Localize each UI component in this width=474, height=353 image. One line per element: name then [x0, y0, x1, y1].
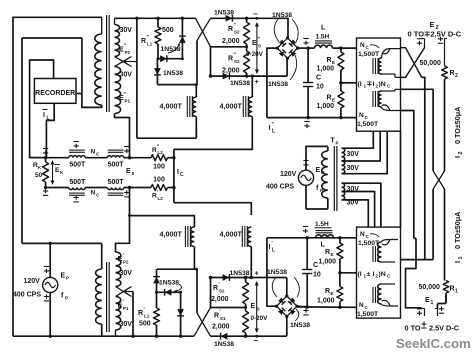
- wire X3 up to plus wire2: [210, 278, 212, 308]
- svg-text:E: E: [332, 60, 335, 65]
- svg-text:S2: S2: [234, 30, 240, 35]
- svg-text:S: S: [257, 307, 260, 312]
- wire X1 down to plus wire: [210, 47, 212, 76]
- node cap2 top: [306, 236, 309, 239]
- svg-text:R: R: [213, 285, 218, 292]
- label 500T (row2 c2): [108, 179, 125, 186]
- svg-text:1,000: 1,000: [317, 103, 335, 110]
- svg-text:500T: 500T: [69, 162, 86, 169]
- label I2 vertical: [453, 107, 464, 158]
- node RE2 mid: [338, 271, 341, 274]
- label RK 50: [33, 162, 43, 179]
- svg-text:E: E: [430, 20, 435, 29]
- node RS2 top: [245, 17, 248, 20]
- label 4000T no2: [220, 102, 243, 111]
- node Ic bottom: [172, 186, 175, 189]
- svg-text:P2: P2: [125, 50, 131, 55]
- svg-text:I: I: [269, 125, 271, 132]
- wire TP tap2 to box1: [342, 131, 381, 161]
- wire TP tap6 to box2: [342, 200, 369, 227]
- resistor 500 RL1: [155, 18, 161, 58]
- label EP mid: [316, 167, 325, 175]
- label 30V tap2: [347, 165, 360, 172]
- node x197 H269: [195, 268, 198, 271]
- label 10 bottom: [313, 272, 321, 279]
- svg-text:S1: S1: [220, 316, 226, 321]
- node H292 right: [179, 291, 182, 294]
- wire primary box TP: [306, 146, 328, 209]
- wire row2 (Es bottom): [46, 187, 151, 189]
- svg-text:P2: P2: [123, 260, 129, 265]
- terminal E1 b: [435, 307, 444, 316]
- wire X1R out right: [422, 77, 425, 259]
- svg-text:R: R: [325, 288, 330, 295]
- svg-text:N: N: [360, 231, 365, 238]
- label 2000 lower: [222, 68, 240, 75]
- svg-text:L2: L2: [158, 196, 164, 201]
- box2 winding upper coil: [378, 240, 398, 263]
- node row1 left junction: [44, 156, 47, 159]
- wire coil4 bottom: [250, 247, 252, 278]
- svg-text:C: C: [313, 262, 318, 269]
- svg-text:': ': [123, 300, 124, 306]
- wire bottom rail right: [211, 335, 287, 337]
- label 1N538 bridge2 top: [267, 269, 299, 297]
- box2 winding lower core: [373, 287, 378, 303]
- label 1N538 (b): [163, 70, 183, 77]
- svg-text:S2: S2: [234, 59, 240, 64]
- node cap bottom on rail: [306, 116, 309, 119]
- svg-text:1,500T: 1,500T: [358, 51, 380, 58]
- polarity mark row1 left: [43, 149, 48, 156]
- transformer T1 center crossing: [115, 57, 137, 67]
- svg-text:1N538: 1N538: [230, 270, 250, 277]
- polarity mark under rail118: [304, 122, 309, 129]
- svg-text:0-20V: 0-20V: [246, 51, 264, 58]
- wire rail 238: [267, 237, 357, 239]
- label 1500T (box2 top): [358, 240, 380, 247]
- label EP1 (T1): [119, 92, 131, 104]
- svg-text:E: E: [126, 168, 131, 175]
- wire coil1 bottom: [195, 117, 197, 139]
- resistor RK: [43, 158, 49, 188]
- vertical box edge connector: [400, 131, 402, 227]
- wire X3 mid to RS block: [211, 306, 248, 309]
- crossing X2: [433, 171, 444, 189]
- node rail x182: [181, 17, 184, 20]
- wire bridge2 top lead: [286, 278, 288, 297]
- wire bridge1 right: [298, 47, 308, 49]
- label RE top-lower: [327, 95, 336, 103]
- svg-text:0 TO±50μA: 0 TO±50μA: [453, 212, 462, 249]
- svg-text:50,000: 50,000: [419, 284, 441, 291]
- svg-text:1,500T: 1,500T: [357, 121, 379, 128]
- wire X2 right leg down to R1: [444, 189, 446, 281]
- node RS2 bottom: [245, 74, 248, 77]
- label 1.5H bottom: [315, 221, 332, 228]
- transformer 4000T no3 winding: [191, 227, 195, 247]
- svg-text:0 TO∓2.5V D-C: 0 TO∓2.5V D-C: [408, 29, 462, 38]
- wire diode rail to bridge top: [211, 18, 289, 38]
- wire source2 bottom lead: [49, 293, 51, 337]
- label 2000 RS2b: [211, 296, 229, 303]
- label ESb: [251, 300, 260, 312]
- box2 winding lower coil: [378, 284, 398, 306]
- svg-text:50: 50: [35, 172, 43, 179]
- label 4000T no3: [160, 230, 183, 239]
- svg-text:S: S: [258, 44, 261, 49]
- svg-text:N: N: [359, 302, 364, 309]
- svg-text:S2: S2: [219, 289, 225, 294]
- transformer T2 core: [107, 262, 110, 332]
- svg-text:L1: L1: [147, 42, 153, 47]
- svg-text:30V: 30V: [120, 27, 133, 34]
- label 30V tap1: [347, 151, 360, 158]
- svg-text:2.5V D-C: 2.5V D-C: [429, 324, 460, 333]
- svg-text:E: E: [331, 252, 334, 257]
- label 50000 bottom: [419, 284, 441, 291]
- label 1000 bottom-lower: [317, 298, 335, 305]
- label RE top-upper: [327, 57, 336, 65]
- svg-text:±: ±: [367, 271, 371, 278]
- svg-text:I: I: [453, 156, 462, 158]
- terminal E1 a: [417, 309, 425, 317]
- svg-text:C: C: [180, 172, 184, 178]
- label 1N538 bottom rail: [214, 341, 234, 348]
- svg-text:L: L: [321, 242, 326, 249]
- label 30V (T1 top): [120, 27, 133, 34]
- polarity mark below NC4 right: [124, 190, 129, 197]
- label ES: [252, 37, 261, 49]
- svg-text:I: I: [453, 261, 462, 263]
- source circle EP bottom: [43, 277, 58, 292]
- resistor RL2 top: [151, 155, 174, 161]
- transformer TP core: [334, 146, 337, 211]
- svg-text:4,000T: 4,000T: [220, 102, 243, 111]
- label 10 top: [316, 84, 324, 91]
- svg-text:2,000: 2,000: [211, 296, 229, 303]
- wire bottom rail left: [13, 335, 194, 337]
- label NC (box2 bottom): [359, 302, 369, 310]
- recorder box: [34, 79, 76, 104]
- label 500T (row1 c1): [69, 162, 86, 169]
- diode 1N538 down (x180 bottom): [177, 292, 184, 336]
- svg-text:E: E: [252, 40, 257, 47]
- label 400 CPS bottom: [13, 292, 41, 299]
- svg-text:L: L: [47, 116, 50, 122]
- svg-text:30V: 30V: [120, 321, 133, 328]
- label R2: [450, 70, 459, 79]
- wire staircase to E1 terminal: [406, 238, 422, 307]
- label 2000 RS1b: [212, 324, 230, 331]
- label E1: [425, 297, 434, 306]
- svg-text:1N538: 1N538: [230, 80, 250, 87]
- diode 1N538 bottom rail: [221, 333, 228, 340]
- label 1.5H top: [316, 34, 330, 41]
- label current I_L: [43, 110, 50, 122]
- svg-text:(I: (I: [358, 81, 362, 88]
- label 500T (row1 c2): [108, 162, 125, 169]
- wire H138 to coil1 4000T: [137, 127, 196, 138]
- node H58 right: [181, 57, 184, 60]
- polarity mark below NC3: [74, 195, 79, 202]
- label 30V tap3: [347, 186, 360, 193]
- svg-text:RECORDER: RECORDER: [35, 90, 75, 97]
- wire box2 entry H259: [401, 259, 434, 261]
- polarity mark above source EP mid: [303, 161, 308, 168]
- transformer TP secondary w4: [342, 192, 345, 200]
- svg-text:2: 2: [455, 73, 458, 79]
- wire TP tap1 to box1: [342, 131, 374, 148]
- bridge1 diamond: [276, 36, 300, 60]
- wire H243 (loop2 to primary2): [22, 242, 102, 244]
- svg-text:1: 1: [455, 289, 458, 295]
- label EP1 (T2): [118, 300, 130, 312]
- node cap2 bottom: [306, 305, 309, 308]
- wire rail 307: [297, 306, 357, 308]
- wire bridge2 left loop: [267, 238, 277, 306]
- wire row1 (Es top): [46, 157, 151, 159]
- label 1N538 bridge1 top: [272, 12, 298, 42]
- svg-text:E: E: [332, 98, 335, 103]
- label RS1b: [214, 310, 226, 322]
- resistor R2: [442, 51, 448, 171]
- polarity mark above rail238: [303, 227, 308, 234]
- box1 winding lower core: [373, 91, 378, 107]
- svg-text:500T: 500T: [69, 179, 86, 186]
- svg-text:L1: L1: [144, 314, 150, 319]
- svg-text:SeekIC.com: SeekIC.com: [396, 336, 471, 351]
- polarity mark under rail307: [303, 308, 308, 315]
- label RE bottom-lower: [325, 288, 334, 296]
- label 1000 top-lower: [317, 103, 335, 110]
- label C top: [316, 75, 321, 82]
- svg-text:E: E: [251, 303, 256, 310]
- diode 1N538 top rail: [226, 15, 233, 22]
- svg-text:1N538: 1N538: [268, 81, 288, 88]
- wire X1 mid to RS2 center: [211, 45, 249, 48]
- node source2 top: [49, 242, 52, 245]
- svg-text:0-20V: 0-20V: [251, 315, 269, 322]
- svg-text:L: L: [272, 129, 275, 135]
- svg-text:0 TO±50μA: 0 TO±50μA: [453, 107, 462, 144]
- label EK: [55, 165, 65, 176]
- svg-text:R: R: [450, 286, 455, 293]
- diode 1N538 plus wire: [223, 73, 230, 80]
- label RS2 upper: [228, 23, 240, 35]
- svg-text:L: L: [272, 248, 275, 254]
- node RE2 top: [338, 236, 341, 239]
- arrow ES: [255, 17, 259, 74]
- svg-text:400 CPS: 400 CPS: [13, 292, 41, 299]
- transformer T2 primary winding: [96, 243, 102, 336]
- transformer T1 primary winding: [95, 17, 102, 107]
- wire bridge2 bottom lead: [286, 316, 288, 336]
- label 1500T (box1 bottom): [357, 121, 379, 128]
- box2 winding upper core: [373, 246, 378, 262]
- wire plus rail bottom: [211, 277, 287, 279]
- label 0 TO 2.5V D-C top: [408, 29, 462, 38]
- node H58 left: [157, 57, 160, 60]
- svg-text:': ': [219, 282, 220, 288]
- coil NC4 500T: [107, 188, 123, 196]
- node source2 bottom: [49, 335, 52, 338]
- label EP2 (T1): [119, 44, 131, 56]
- wire row2 to coil4 4000T: [174, 203, 251, 215]
- node L junction left: [306, 46, 309, 49]
- svg-text:+: +: [255, 77, 260, 86]
- transformer T1 core: [107, 15, 110, 112]
- wire T2 EP2 top jog to row2 node: [116, 188, 130, 253]
- node rail x137: [135, 17, 138, 20]
- transformer T2 secondary winding EP1b: [116, 297, 121, 337]
- label 30V (T1 mid): [120, 72, 133, 79]
- wire bridge1 bottom lead: [286, 58, 288, 76]
- transformer 4000T no1 core: [187, 96, 192, 117]
- wire outer loop (recorder to transformer T1 primary top and left rail): [13, 17, 102, 336]
- label IL bottom: [269, 241, 276, 254]
- wire T1 EP1 bottom to Es node: [115, 114, 130, 158]
- label 100 bottom: [153, 177, 165, 184]
- label plus topES: [255, 77, 260, 86]
- wire loop 3 (recorder top terminal loop): [30, 60, 54, 158]
- wire top rail: [115, 17, 196, 19]
- wire TP tap4 to box2: [342, 183, 381, 227]
- svg-text:C: C: [316, 75, 321, 82]
- label 50000 top: [420, 60, 442, 67]
- svg-text:R: R: [228, 26, 233, 33]
- svg-text:N: N: [360, 42, 365, 49]
- label 500: [162, 27, 174, 34]
- label IL star top: [269, 122, 276, 135]
- label L bottom: [321, 242, 326, 249]
- svg-text:R: R: [327, 95, 332, 102]
- label NC (box1 bottom): [359, 112, 369, 120]
- transformer 4000T no3 core: [185, 226, 190, 247]
- svg-text:30V: 30V: [120, 72, 133, 79]
- diode 1N538 up (x156 bottom): [153, 269, 160, 292]
- resistor RE top-upper: [338, 48, 344, 83]
- diode 1N538 up (x182): [179, 18, 186, 58]
- svg-text:N: N: [91, 149, 96, 156]
- svg-text:R: R: [228, 56, 233, 63]
- label Ic: [177, 169, 184, 178]
- svg-text:1N538: 1N538: [163, 70, 183, 77]
- inductor L 1.5H bottom: [316, 231, 334, 238]
- box NC1: [357, 38, 401, 131]
- transformer TP secondary w1: [342, 148, 345, 161]
- svg-text:120V: 120V: [280, 171, 297, 178]
- wire H215 to coil3: [128, 214, 194, 227]
- svg-text:)N: )N: [379, 81, 386, 88]
- node plus2 left: [209, 276, 212, 279]
- crossing X3: [194, 308, 211, 337]
- crossing X1R: [401, 46, 425, 77]
- label Es: [126, 168, 135, 177]
- svg-text:1,500T: 1,500T: [357, 311, 379, 318]
- svg-text:400 CPS: 400 CPS: [266, 184, 294, 191]
- label minus top: [253, 10, 258, 19]
- polarity mark row2 left: [43, 189, 48, 196]
- wire H84 to coil1: [157, 85, 196, 97]
- label 400 CPS mid: [266, 184, 294, 191]
- svg-text:C: C: [387, 274, 391, 280]
- node H84 coil1: [195, 83, 198, 86]
- resistor RE bottom-lower: [337, 273, 343, 308]
- source circle EP mid: [298, 170, 313, 185]
- svg-text:2,000: 2,000: [212, 324, 230, 331]
- transformer T2 center crossing: [116, 287, 134, 297]
- svg-text:R: R: [327, 57, 332, 64]
- label E2: [430, 20, 439, 31]
- wire plus rail: [211, 75, 288, 77]
- svg-text:1,000: 1,000: [317, 66, 335, 73]
- wire box1 y89 to x433: [401, 89, 434, 171]
- svg-text:1.5H: 1.5H: [316, 34, 330, 41]
- svg-text:R: R: [141, 38, 146, 45]
- wire H58 with diode: [158, 55, 182, 62]
- label 0-20V (bottom): [251, 315, 269, 322]
- wire x197 bottom: [196, 269, 198, 313]
- transformer TP secondary w3: [342, 183, 345, 191]
- svg-text:R: R: [138, 310, 143, 317]
- diode 1N538 plus wire2: [223, 274, 230, 281]
- svg-text:2,000: 2,000: [222, 38, 240, 45]
- node X2tail bottom rail: [131, 335, 134, 338]
- label 120V bottom: [24, 278, 41, 285]
- svg-text:0 TO: 0 TO: [405, 324, 421, 333]
- label 120V mid: [280, 171, 297, 178]
- svg-text:L: L: [321, 25, 326, 32]
- resistor RL2 bottom: [151, 185, 174, 191]
- label 1N538 plus wire: [230, 80, 250, 87]
- svg-text:': ': [144, 307, 145, 313]
- svg-text:': ': [256, 300, 257, 306]
- svg-text:1,000: 1,000: [319, 259, 337, 266]
- polarity mark bridge1 right: [303, 39, 308, 46]
- wire X2tail vertical bottom: [132, 292, 134, 337]
- node RE bottom on rail: [339, 116, 342, 119]
- node RE2 bottom: [338, 306, 341, 309]
- svg-text:I: I: [373, 271, 375, 278]
- label C bottom: [313, 262, 318, 269]
- transformer TP secondary w2: [342, 161, 345, 174]
- transformer 4000T no1 winding: [193, 97, 197, 127]
- label RL2 top: [152, 145, 163, 156]
- box1 winding lower coil: [378, 89, 400, 110]
- wire TP tap3 to box1: [342, 131, 388, 174]
- svg-text:500: 500: [139, 321, 151, 328]
- label 0-20V (top): [246, 51, 264, 58]
- wire H292 with diode: [157, 289, 181, 296]
- svg-text:1,500T: 1,500T: [358, 240, 380, 247]
- node Ic top: [172, 156, 175, 159]
- svg-text:1: 1: [431, 300, 434, 306]
- node RE mid top: [339, 81, 342, 84]
- node H292 left: [155, 291, 158, 294]
- label 1000 top-upper: [317, 66, 335, 73]
- resistor RS2 upper: [244, 18, 250, 47]
- coil NC1 500T: [69, 150, 85, 158]
- resistor RE top-lower: [338, 83, 344, 118]
- node diode bottom rail: [179, 335, 182, 338]
- svg-text:4,000T: 4,000T: [160, 102, 183, 111]
- node RE top junction: [339, 46, 342, 49]
- diode 1N538 down (x157): [154, 59, 161, 85]
- resistor RS2 lower: [244, 47, 250, 76]
- label I1+I2 NC (box2): [358, 271, 392, 280]
- node RL1b bottom: [155, 335, 158, 338]
